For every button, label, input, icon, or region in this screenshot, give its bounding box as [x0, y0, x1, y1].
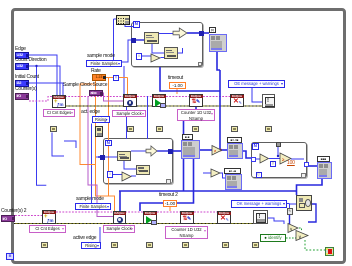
svg-text:∨: ∨	[298, 235, 302, 241]
